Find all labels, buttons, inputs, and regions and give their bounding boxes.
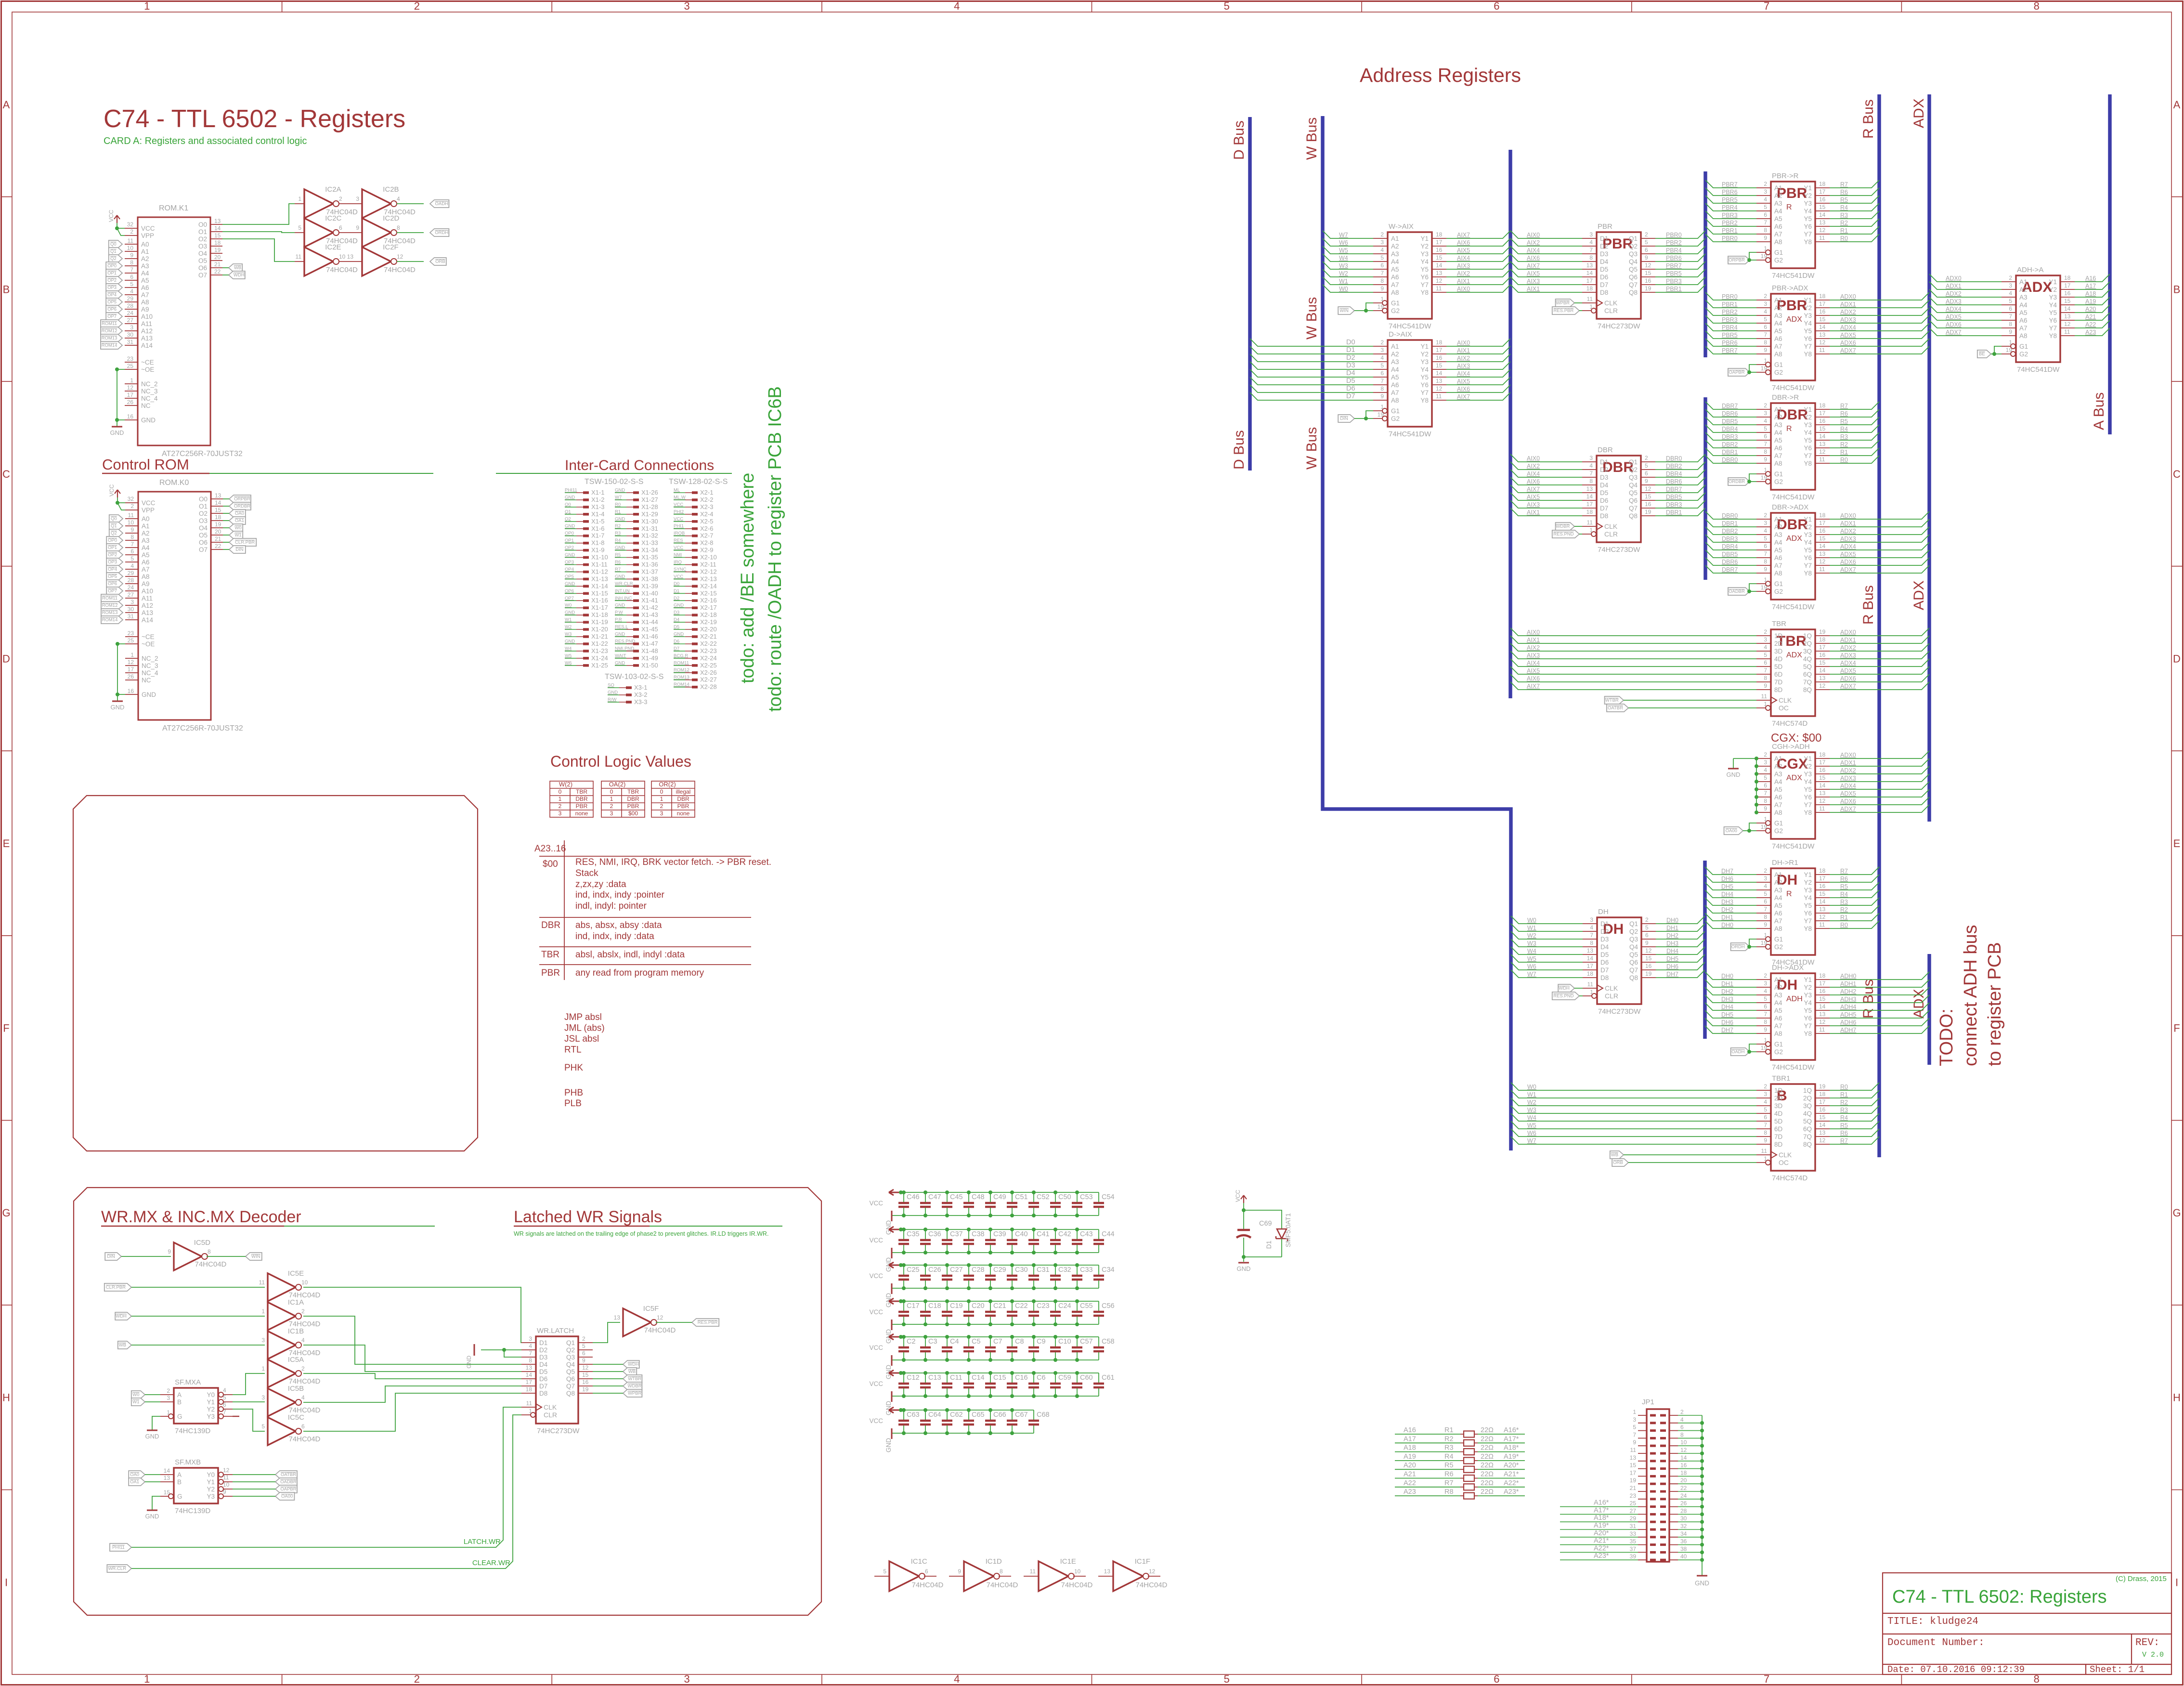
svg-text:W2: W2: [565, 625, 572, 630]
svg-text:OP0: OP0: [107, 263, 117, 269]
svg-text:~OE: ~OE: [142, 640, 155, 648]
svg-text:21: 21: [214, 261, 221, 268]
svg-text:W1: W1: [1527, 925, 1536, 931]
svg-text:AIX6: AIX6: [1457, 386, 1470, 392]
svg-text:A22: A22: [2085, 321, 2096, 328]
svg-text:A7: A7: [1774, 1022, 1782, 1030]
svg-text:X1-5: X1-5: [591, 518, 604, 525]
svg-text:5: 5: [1633, 1424, 1636, 1431]
svg-text:X1-42: X1-42: [641, 604, 658, 611]
svg-text:R1: R1: [1840, 227, 1848, 234]
svg-text:Y2: Y2: [207, 1486, 215, 1493]
svg-text:11: 11: [1436, 285, 1442, 292]
svg-text:OP7: OP7: [107, 314, 117, 319]
svg-text:G1: G1: [1774, 936, 1783, 943]
svg-text:AIX2: AIX2: [1457, 355, 1470, 362]
svg-text:DBR1: DBR1: [1722, 449, 1738, 456]
svg-text:19: 19: [1819, 1083, 1826, 1090]
svg-text:74HC541DW: 74HC541DW: [1772, 272, 1815, 280]
svg-text:A2: A2: [1774, 879, 1782, 886]
svg-text:A8: A8: [2019, 332, 2028, 340]
svg-text:W3: W3: [1527, 1107, 1536, 1113]
svg-text:ORDBR: ORDBR: [234, 504, 250, 509]
svg-text:8: 8: [2009, 321, 2012, 327]
svg-text:D6: D6: [1600, 497, 1608, 504]
svg-text:REV:: REV:: [2135, 1637, 2159, 1648]
svg-text:A5: A5: [141, 277, 149, 284]
svg-text:7Q: 7Q: [1803, 679, 1812, 686]
svg-text:11: 11: [1587, 519, 1593, 526]
svg-text:AIX2: AIX2: [1527, 239, 1540, 246]
svg-text:Document Number:: Document Number:: [1887, 1637, 1985, 1648]
svg-text:C14: C14: [972, 1374, 985, 1382]
svg-text:6: 6: [1764, 324, 1767, 330]
svg-text:A8: A8: [1391, 289, 1399, 296]
svg-text:OP7: OP7: [108, 588, 117, 594]
svg-text:Q4: Q4: [1629, 482, 1638, 489]
svg-text:TODO:: TODO:: [1937, 1008, 1957, 1066]
svg-text:4Q: 4Q: [1803, 655, 1812, 663]
svg-text:16: 16: [1645, 963, 1652, 969]
svg-text:4: 4: [223, 1387, 226, 1394]
svg-text:11: 11: [1819, 456, 1825, 463]
svg-text:X2-15: X2-15: [700, 589, 717, 597]
svg-text:35: 35: [1630, 1538, 1637, 1545]
svg-text:SF.MXA: SF.MXA: [175, 1378, 201, 1386]
svg-text:C18: C18: [928, 1302, 941, 1310]
svg-text:3: 3: [167, 1395, 170, 1401]
svg-text:C50: C50: [1058, 1193, 1071, 1201]
svg-text:A5: A5: [1774, 547, 1782, 554]
svg-text:PBR3: PBR3: [1666, 278, 1682, 285]
svg-text:Y5: Y5: [1420, 374, 1429, 381]
svg-text:ADX1: ADX1: [1840, 759, 1856, 766]
svg-text:G1: G1: [2019, 343, 2028, 350]
svg-text:Q1: Q1: [1629, 920, 1638, 928]
svg-text:GND: GND: [615, 488, 625, 493]
svg-text:2: 2: [1764, 1083, 1767, 1090]
svg-text:D1: D1: [1600, 458, 1608, 466]
svg-text:A4: A4: [1774, 894, 1782, 902]
svg-text:R5: R5: [615, 552, 621, 558]
svg-text:Y5: Y5: [1804, 786, 1812, 793]
svg-text:A2: A2: [1391, 351, 1399, 358]
svg-text:WDH: WDH: [116, 1314, 127, 1319]
svg-text:2: 2: [414, 0, 420, 12]
svg-text:A13: A13: [141, 335, 153, 342]
svg-text:16: 16: [2064, 290, 2071, 297]
svg-text:Y2: Y2: [2049, 286, 2057, 293]
svg-text:12: 12: [1819, 227, 1826, 234]
svg-text:7: 7: [1764, 1122, 1767, 1128]
svg-text:2: 2: [559, 803, 562, 810]
svg-text:W(2): W(2): [559, 781, 572, 788]
svg-text:11: 11: [128, 512, 134, 519]
svg-text:DH->R1: DH->R1: [1772, 859, 1798, 867]
svg-text:ADX: ADX: [1786, 535, 1802, 543]
svg-text:A12: A12: [141, 327, 153, 335]
svg-text:A2: A2: [141, 255, 149, 262]
svg-text:D->AIX: D->AIX: [1389, 330, 1412, 339]
svg-text:IC2E: IC2E: [325, 243, 341, 251]
svg-text:9: 9: [1380, 393, 1384, 400]
svg-text:A2: A2: [1774, 763, 1782, 770]
svg-text:VCC: VCC: [1235, 1189, 1241, 1202]
svg-text:AIX2: AIX2: [1457, 270, 1470, 277]
svg-text:R6: R6: [1840, 189, 1848, 196]
svg-text:16: 16: [1645, 277, 1651, 284]
svg-text:W5: W5: [1527, 1122, 1536, 1129]
svg-text:WR signals are latched on the: WR signals are latched on the trailing e…: [514, 1230, 768, 1237]
svg-text:6: 6: [1764, 898, 1767, 905]
svg-text:6Q: 6Q: [1803, 1125, 1812, 1133]
svg-text:11: 11: [1436, 393, 1442, 400]
svg-text:ADX7: ADX7: [1840, 566, 1856, 573]
svg-text:9: 9: [1764, 682, 1767, 689]
svg-text:IC1E: IC1E: [1060, 1557, 1076, 1566]
svg-text:DH6: DH6: [1721, 1019, 1733, 1026]
svg-text:14: 14: [1819, 782, 1826, 789]
svg-text:A5: A5: [1774, 327, 1782, 335]
svg-text:5: 5: [2009, 298, 2012, 304]
svg-text:NMI.PND: NMI.PND: [615, 646, 634, 651]
svg-text:Q8: Q8: [1629, 512, 1638, 520]
svg-text:19: 19: [1645, 970, 1652, 977]
svg-text:D8: D8: [1600, 512, 1608, 520]
svg-text:A5: A5: [1774, 786, 1782, 793]
svg-text:CLR: CLR: [1605, 992, 1618, 1000]
svg-text:74HC273DW: 74HC273DW: [1598, 322, 1640, 330]
svg-text:SF.MXB: SF.MXB: [175, 1458, 201, 1466]
svg-text:19: 19: [1645, 509, 1651, 515]
svg-text:A3: A3: [142, 537, 150, 544]
svg-text:WDBR: WDBR: [1556, 524, 1570, 529]
svg-text:ind, indx, indy :pointer: ind, indx, indy :pointer: [575, 890, 665, 900]
svg-text:R3: R3: [615, 531, 621, 536]
svg-text:12: 12: [657, 1314, 663, 1321]
svg-text:AIX1: AIX1: [1527, 637, 1540, 643]
svg-text:8: 8: [1380, 385, 1384, 392]
svg-text:AIX3: AIX3: [1527, 652, 1540, 659]
svg-text:PBR4: PBR4: [1722, 324, 1738, 331]
svg-text:A23: A23: [1404, 1488, 1416, 1496]
svg-text:5: 5: [1645, 462, 1648, 469]
svg-text:17: 17: [127, 392, 134, 398]
svg-text:Y7: Y7: [1804, 801, 1812, 809]
svg-text:ROM14: ROM14: [102, 617, 118, 623]
svg-text:C31: C31: [1037, 1266, 1050, 1274]
svg-text:15: 15: [214, 232, 221, 239]
svg-text:DH0: DH0: [1666, 917, 1678, 924]
svg-text:12: 12: [1819, 682, 1826, 689]
svg-text:OA0: OA0: [130, 1472, 139, 1477]
svg-text:GND: GND: [565, 610, 575, 615]
svg-text:5: 5: [1764, 1106, 1767, 1113]
svg-text:9: 9: [1764, 456, 1767, 463]
svg-text:WPBR: WPBR: [1556, 301, 1570, 306]
svg-text:10: 10: [223, 1481, 230, 1488]
svg-text:18: 18: [1819, 181, 1826, 187]
svg-text:3: 3: [1380, 239, 1384, 246]
svg-text:20: 20: [215, 528, 221, 535]
svg-text:74HC541DW: 74HC541DW: [2017, 366, 2060, 374]
svg-text:Y7: Y7: [1804, 231, 1812, 238]
svg-text:PBR2: PBR2: [1722, 309, 1738, 315]
svg-text:Q2: Q2: [1629, 928, 1638, 935]
svg-text:12: 12: [128, 659, 134, 666]
svg-text:9: 9: [1764, 566, 1767, 573]
svg-text:AIX4: AIX4: [1527, 247, 1540, 254]
svg-text:2: 2: [1764, 867, 1767, 874]
svg-text:9: 9: [1764, 1137, 1767, 1144]
svg-text:DBR7: DBR7: [1666, 486, 1682, 493]
svg-text:Q2: Q2: [566, 1346, 575, 1354]
svg-text:13: 13: [1104, 1568, 1111, 1575]
svg-text:PBR0: PBR0: [1722, 293, 1738, 300]
svg-text:PBR4: PBR4: [1722, 204, 1738, 211]
svg-text:Y1: Y1: [1804, 184, 1812, 192]
svg-text:A6: A6: [1774, 794, 1782, 801]
svg-text:D4: D4: [1600, 943, 1609, 951]
svg-text:A23..16: A23..16: [534, 844, 566, 854]
svg-text:X2-10: X2-10: [700, 554, 717, 561]
svg-text:16: 16: [127, 413, 134, 420]
svg-text:ADX6: ADX6: [1946, 321, 1962, 328]
svg-text:A9: A9: [142, 580, 150, 588]
svg-text:11: 11: [1761, 1148, 1768, 1154]
svg-text:A5: A5: [142, 551, 150, 559]
svg-text:AIX1: AIX1: [1527, 509, 1540, 516]
svg-text:G2: G2: [1774, 827, 1783, 835]
svg-text:GND: GND: [615, 574, 625, 579]
svg-text:GND: GND: [565, 495, 575, 500]
svg-text:8: 8: [1764, 227, 1767, 234]
svg-text:ADX7: ADX7: [1840, 683, 1856, 690]
svg-text:A4: A4: [1391, 366, 1399, 373]
svg-text:8Q: 8Q: [1803, 686, 1812, 693]
svg-text:14: 14: [2064, 305, 2071, 312]
svg-text:OATBR: OATBR: [1608, 706, 1623, 711]
svg-text:Y8: Y8: [1804, 925, 1812, 932]
svg-text:X1-12: X1-12: [591, 568, 608, 575]
svg-text:2: 2: [1645, 916, 1649, 923]
svg-text:D7: D7: [1600, 967, 1609, 974]
svg-text:CLEAR.WR: CLEAR.WR: [472, 1559, 510, 1567]
svg-text:DH5: DH5: [1666, 955, 1678, 962]
svg-text:Q1: Q1: [111, 523, 117, 529]
svg-text:Y1: Y1: [1420, 235, 1429, 242]
svg-text:2: 2: [1380, 231, 1384, 238]
svg-text:Q1: Q1: [110, 249, 117, 254]
svg-text:A8: A8: [1774, 351, 1782, 358]
svg-text:C44: C44: [1102, 1230, 1115, 1238]
svg-text:D1: D1: [1346, 346, 1355, 354]
svg-text:R4: R4: [1444, 1453, 1454, 1461]
svg-text:1: 1: [1589, 303, 1593, 310]
svg-text:VCC: VCC: [141, 225, 155, 232]
svg-text:4: 4: [1764, 418, 1767, 424]
svg-text:todo: route /OADH to register: todo: route /OADH to register PCB IC6B: [765, 386, 785, 712]
svg-text:17: 17: [2064, 282, 2071, 289]
svg-text:4: 4: [954, 1673, 960, 1685]
svg-text:(C) Drass, 2015: (C) Drass, 2015: [2116, 1575, 2167, 1583]
svg-text:DH7: DH7: [1666, 971, 1678, 978]
svg-text:AIX7: AIX7: [1527, 486, 1540, 493]
svg-text:74HC04D: 74HC04D: [289, 1435, 321, 1443]
svg-text:17: 17: [1819, 301, 1826, 307]
svg-text:AIX7: AIX7: [1457, 232, 1470, 238]
svg-text:4: 4: [301, 1337, 305, 1344]
svg-text:C7: C7: [993, 1338, 1002, 1346]
svg-text:2: 2: [301, 1365, 305, 1372]
svg-text:X1-29: X1-29: [641, 510, 658, 518]
svg-text:Y3: Y3: [1804, 312, 1812, 319]
svg-text:X1-18: X1-18: [591, 611, 608, 618]
svg-text:17: 17: [1819, 520, 1826, 526]
svg-text:Y4: Y4: [1804, 999, 1812, 1006]
svg-text:C55: C55: [1080, 1302, 1093, 1310]
svg-text:X1-27: X1-27: [641, 496, 658, 503]
svg-text:C16: C16: [1015, 1374, 1028, 1382]
svg-text:OP5: OP5: [565, 574, 574, 579]
svg-text:ROM.K1: ROM.K1: [159, 204, 188, 212]
svg-text:6: 6: [2009, 305, 2012, 312]
svg-text:19: 19: [2006, 347, 2013, 353]
svg-text:15: 15: [215, 507, 221, 513]
svg-text:CLK: CLK: [1779, 696, 1792, 704]
svg-text:X2-11: X2-11: [700, 561, 716, 568]
svg-text:9: 9: [168, 1248, 171, 1255]
svg-text:26: 26: [128, 673, 134, 680]
svg-text:15: 15: [1819, 316, 1826, 323]
svg-text:AIX5: AIX5: [1527, 667, 1540, 674]
svg-text:9: 9: [1764, 805, 1767, 812]
svg-text:DBR5: DBR5: [1722, 551, 1738, 558]
svg-text:30: 30: [1680, 1515, 1687, 1522]
svg-text:2Q: 2Q: [1803, 1095, 1812, 1102]
svg-text:D: D: [2173, 653, 2181, 665]
svg-text:ADX0: ADX0: [1840, 629, 1856, 636]
svg-text:1: 1: [167, 1409, 170, 1416]
svg-text:3: 3: [1380, 347, 1384, 353]
svg-text:11: 11: [223, 1474, 229, 1481]
svg-text:22Ω: 22Ω: [1481, 1426, 1494, 1434]
svg-text:VCC: VCC: [108, 209, 115, 222]
svg-text:8: 8: [1764, 1019, 1767, 1025]
svg-text:ROM13: ROM13: [102, 610, 118, 615]
svg-text:DBR6: DBR6: [1722, 410, 1738, 417]
svg-text:2: 2: [1764, 181, 1767, 187]
svg-text:ADX1: ADX1: [1946, 283, 1962, 289]
svg-text:12: 12: [1819, 1137, 1826, 1144]
svg-text:VCC: VCC: [674, 516, 683, 522]
svg-text:GND: GND: [142, 691, 156, 698]
svg-text:Q1: Q1: [1629, 235, 1638, 242]
svg-text:A23: A23: [2085, 329, 2096, 336]
svg-text:R2: R2: [615, 523, 621, 529]
svg-text:6: 6: [1494, 1673, 1499, 1685]
svg-text:X1-25: X1-25: [591, 662, 608, 669]
svg-text:Control Logic Values: Control Logic Values: [550, 753, 691, 770]
svg-text:16: 16: [1645, 501, 1651, 508]
svg-text:D6: D6: [539, 1375, 547, 1383]
svg-text:C15: C15: [993, 1374, 1006, 1382]
svg-text:14: 14: [1819, 667, 1826, 674]
svg-text:OP4: OP4: [565, 567, 574, 572]
svg-text:27: 27: [127, 317, 134, 324]
svg-text:W5: W5: [565, 653, 572, 658]
svg-text:9: 9: [1645, 940, 1649, 946]
svg-text:3: 3: [1764, 301, 1767, 307]
svg-text:W4: W4: [565, 646, 572, 651]
svg-text:9: 9: [1633, 1439, 1636, 1446]
svg-text:7: 7: [1589, 470, 1593, 477]
svg-text:PHB: PHB: [564, 1088, 583, 1098]
svg-text:5: 5: [582, 1343, 585, 1349]
svg-text:ind, indx, indy :data: ind, indx, indy :data: [575, 931, 654, 941]
svg-text:Q0: Q0: [110, 242, 117, 247]
svg-text:VCC: VCC: [869, 1200, 883, 1207]
svg-text:Y1: Y1: [2049, 278, 2057, 286]
svg-text:ROM12: ROM12: [674, 667, 689, 673]
svg-text:JML (abs): JML (abs): [564, 1023, 605, 1033]
svg-text:Q6: Q6: [1629, 497, 1638, 504]
svg-text:A11: A11: [142, 595, 153, 602]
svg-text:TBR: TBR: [541, 950, 559, 960]
svg-text:VCC: VCC: [869, 1344, 883, 1351]
svg-text:A18*: A18*: [1504, 1444, 1519, 1452]
svg-text:4Q: 4Q: [1803, 1110, 1812, 1117]
svg-text:ADX3: ADX3: [1840, 536, 1856, 542]
svg-text:11: 11: [1819, 347, 1825, 353]
svg-text:A8: A8: [1774, 238, 1782, 246]
svg-text:18: 18: [1587, 970, 1594, 977]
svg-text:2: 2: [610, 803, 613, 810]
svg-text:4: 4: [1380, 247, 1384, 253]
svg-text:PHI11: PHI11: [565, 488, 577, 493]
svg-text:G: G: [177, 1493, 182, 1500]
svg-text:7: 7: [1764, 219, 1767, 226]
svg-text:6D: 6D: [1774, 1125, 1783, 1133]
svg-text:6Q: 6Q: [1803, 671, 1812, 678]
svg-text:AIX6: AIX6: [1457, 239, 1470, 246]
svg-text:TITLE: kludge24: TITLE: kludge24: [1887, 1616, 1978, 1627]
svg-text:C41: C41: [1037, 1230, 1050, 1238]
svg-text:17: 17: [1819, 980, 1826, 987]
svg-text:Q7: Q7: [1629, 967, 1638, 974]
svg-text:DH1: DH1: [1721, 980, 1733, 987]
svg-text:P.R: P.R: [615, 617, 622, 623]
svg-text:8: 8: [2034, 0, 2040, 12]
svg-text:A7: A7: [1774, 801, 1782, 809]
svg-text:DBR1: DBR1: [1722, 520, 1738, 527]
svg-text:AIX5: AIX5: [1527, 270, 1540, 277]
svg-text:IC2A: IC2A: [325, 185, 341, 194]
svg-text:Q3: Q3: [1629, 250, 1638, 258]
svg-text:ROM14: ROM14: [102, 343, 117, 348]
svg-text:X1-45: X1-45: [641, 626, 658, 633]
svg-text:18: 18: [1680, 1469, 1687, 1476]
svg-text:OC: OC: [1779, 704, 1789, 712]
svg-text:A8: A8: [1774, 570, 1782, 577]
svg-text:OA00: OA00: [1726, 828, 1737, 834]
svg-text:29: 29: [127, 295, 134, 302]
svg-text:17: 17: [1819, 644, 1826, 651]
svg-text:D3: D3: [1346, 362, 1355, 369]
svg-text:ADX3: ADX3: [1840, 775, 1856, 782]
svg-text:NC_4: NC_4: [141, 395, 158, 402]
svg-text:DH1: DH1: [1721, 914, 1733, 921]
